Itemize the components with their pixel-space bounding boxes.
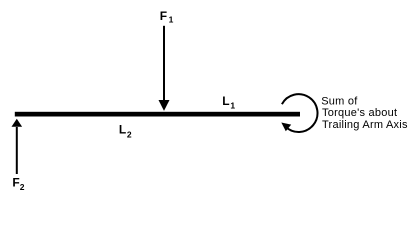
- svg-text:L: L: [222, 94, 229, 108]
- length L2 label: [119, 123, 132, 140]
- force F2 arrow (upward): [12, 119, 23, 174]
- svg-text:2: 2: [20, 182, 25, 192]
- svg-text:1: 1: [169, 14, 174, 24]
- svg-text:F: F: [12, 175, 19, 189]
- svg-text:Torque's about: Torque's about: [322, 107, 397, 119]
- svg-text:L: L: [119, 123, 126, 137]
- length L1 label: [222, 94, 235, 110]
- svg-text:F: F: [160, 9, 167, 23]
- annotation text: Sum of Torque's about Trailing Arm Axis: [321, 96, 408, 131]
- beam (trailing arm bar): [15, 112, 300, 117]
- svg-text:1: 1: [230, 101, 235, 111]
- force F1 arrow (downward): [159, 26, 170, 111]
- force F2 label: [12, 175, 24, 192]
- svg-text:Trailing Arm Axis: Trailing Arm Axis: [322, 119, 408, 131]
- torque arc (sum of torques about trailing arm axis): [281, 94, 317, 132]
- force F1 label: [160, 9, 174, 24]
- svg-text:Sum of: Sum of: [321, 96, 358, 108]
- svg-text:2: 2: [127, 129, 132, 139]
